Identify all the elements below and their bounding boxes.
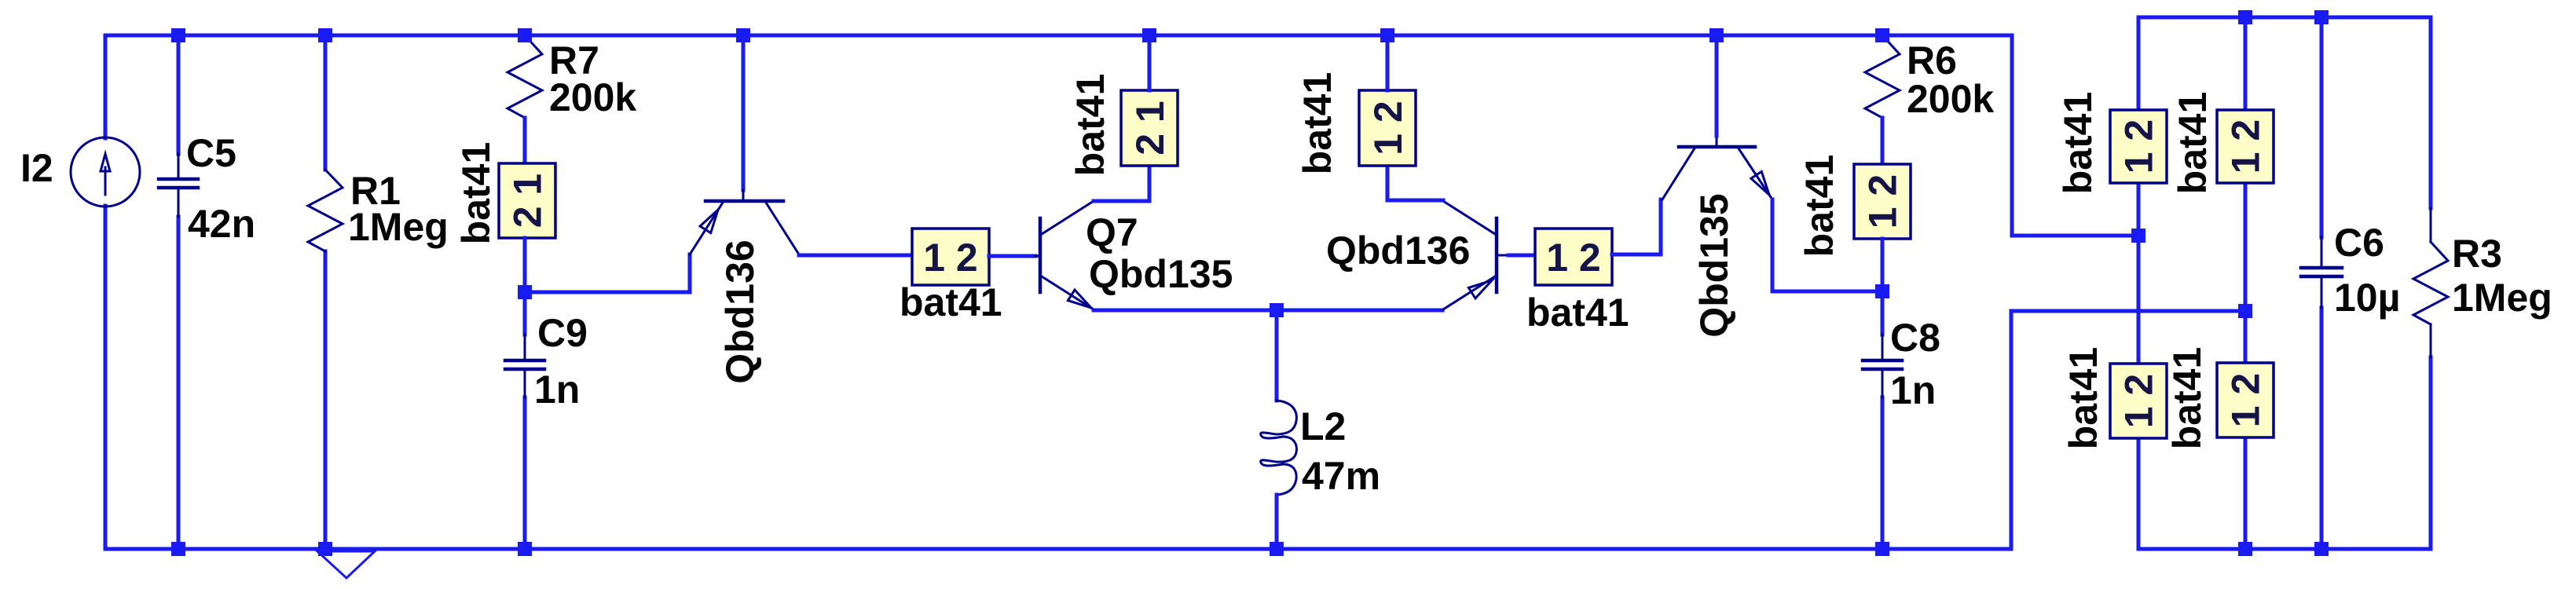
resistor R7 xyxy=(508,35,542,118)
svg-text:1n: 1n xyxy=(1890,368,1936,412)
svg-text:1 2: 1 2 xyxy=(2224,119,2268,174)
diode box bat41 RB4 xyxy=(2217,363,2274,437)
diode box bat41 RB3 xyxy=(2110,364,2167,438)
svg-text:2 1: 2 1 xyxy=(506,174,550,229)
svg-text:1Meg: 1Meg xyxy=(348,205,449,249)
transistor Q7 Qbd135 body xyxy=(1035,201,1094,309)
wire Q8 emitter to R6 node xyxy=(1772,199,1882,291)
wire Q6 base to diode box B2 xyxy=(1508,254,1535,258)
capacitor C9 xyxy=(505,335,544,397)
wire R6 to diode box V4 xyxy=(1881,118,1885,164)
wire R3 column xyxy=(2429,17,2433,549)
svg-text:C6: C6 xyxy=(2334,221,2384,265)
svg-text:1Meg: 1Meg xyxy=(2452,276,2552,320)
diode box bat41 V3 xyxy=(1359,90,1416,166)
junction top rail R1 xyxy=(318,28,332,42)
svg-text:bat41: bat41 xyxy=(1797,155,1841,258)
svg-text:L2: L2 xyxy=(1300,404,1346,448)
diode box bat41 RB1 xyxy=(2110,110,2167,183)
wire diode box to node xyxy=(523,238,527,292)
svg-text:bat41: bat41 xyxy=(2056,92,2100,195)
wire Q5 collector to diode box B1 xyxy=(799,254,912,258)
wire B1 to Q7 base xyxy=(989,254,1035,258)
svg-text:Qbd135: Qbd135 xyxy=(1692,193,1736,337)
junction top rail V3 xyxy=(1380,28,1394,42)
svg-text:Qbd136: Qbd136 xyxy=(1326,229,1470,273)
node junction R7/C9 xyxy=(518,285,532,299)
wire C9 column xyxy=(523,292,527,549)
wire top rail xyxy=(105,34,2012,38)
svg-text:C9: C9 xyxy=(537,311,588,355)
svg-text:I2: I2 xyxy=(20,146,53,190)
junction right block bottom rail C6 xyxy=(2314,542,2329,556)
inductor L2 xyxy=(1261,401,1297,495)
junction bottom rail L2 xyxy=(1270,542,1284,556)
svg-text:1 2: 1 2 xyxy=(923,236,978,280)
wire R1 column xyxy=(324,35,328,549)
wire Q6 collector to diode box V3 xyxy=(1387,166,1443,200)
wire B2 to Q8 collector xyxy=(1612,199,1661,254)
capacitor C6 xyxy=(2301,237,2342,308)
svg-text:2 1: 2 1 xyxy=(1128,101,1172,155)
junction right block bottom rail col2 xyxy=(2238,542,2252,556)
svg-text:200k: 200k xyxy=(1907,77,1994,121)
junction L2 node xyxy=(1270,303,1284,317)
svg-text:Qbd135: Qbd135 xyxy=(1089,252,1233,296)
svg-text:bat41: bat41 xyxy=(2165,347,2209,450)
svg-text:bat41: bat41 xyxy=(1068,74,1112,177)
transistor Q5 Qbd136 base wire xyxy=(742,35,746,190)
svg-text:bat41: bat41 xyxy=(2061,347,2105,450)
wire V2 to top rail xyxy=(1148,35,1152,90)
wire V3 to top rail xyxy=(1386,35,1390,90)
svg-text:1 2: 1 2 xyxy=(1861,174,1905,229)
wire C5 column xyxy=(177,35,181,549)
resistor R1 xyxy=(308,170,343,251)
diode box bat41 V2 xyxy=(1121,90,1178,166)
transistor Q8 Qbd135 body xyxy=(1662,136,1772,199)
junction bottom rail ground xyxy=(318,542,332,556)
transistor Q6 Qbd136 body xyxy=(1443,201,1508,309)
diode box bat41 V4 xyxy=(1854,164,1911,239)
wire Q7 emitter to L2 node xyxy=(1094,309,1442,313)
svg-text:R3: R3 xyxy=(2452,232,2502,276)
wire right block bottom rail xyxy=(2138,547,2431,551)
svg-text:bat41: bat41 xyxy=(454,142,498,245)
svg-text:R6: R6 xyxy=(1907,38,1957,82)
resistor R3 xyxy=(2413,208,2448,357)
svg-text:1 2: 1 2 xyxy=(1546,236,1601,280)
junction top rail C5 xyxy=(171,28,185,42)
svg-text:1 2: 1 2 xyxy=(1366,101,1410,155)
svg-text:200k: 200k xyxy=(549,75,636,119)
wire left column xyxy=(104,35,108,549)
resistor R6 xyxy=(1865,35,1900,118)
svg-text:bat41: bat41 xyxy=(900,280,1002,324)
wire C8 column xyxy=(1881,291,1885,549)
wire V4 to C8 node xyxy=(1881,239,1885,291)
wire top rail drop right xyxy=(2012,35,2138,236)
junction bottom rail C8 xyxy=(1875,542,1889,556)
svg-text:1 2: 1 2 xyxy=(2117,119,2161,174)
svg-text:bat41: bat41 xyxy=(1526,291,1629,335)
wire right block top rail xyxy=(2138,16,2431,20)
wire bottom rail rise right xyxy=(2011,311,2245,549)
wire right column 1 xyxy=(2137,17,2141,549)
junction right column 2 node xyxy=(2238,304,2252,318)
svg-text:10µ: 10µ xyxy=(2334,276,2400,320)
svg-text:42n: 42n xyxy=(188,202,255,246)
wire L2 bottom xyxy=(1275,495,1279,549)
wire Q7 collector to diode box V2 xyxy=(1094,166,1149,201)
junction right column 1 xyxy=(2131,229,2145,243)
wire right column 2 xyxy=(2244,17,2248,549)
diode box bat41 V1 xyxy=(499,163,555,238)
diode box bat41 B1 xyxy=(912,229,989,285)
junction top rail Q8 base xyxy=(1709,28,1724,42)
capacitor C5 xyxy=(159,154,198,217)
node junction C8 xyxy=(1875,284,1889,298)
wire L2 top xyxy=(1275,310,1279,401)
svg-text:bat41: bat41 xyxy=(1295,72,1339,175)
wire R7 to diode box xyxy=(523,118,527,163)
svg-text:1 2: 1 2 xyxy=(2224,373,2268,428)
svg-text:Q7: Q7 xyxy=(1086,210,1138,254)
current source I2 xyxy=(71,137,140,207)
junction top rail Q5 base xyxy=(736,28,750,42)
wire C6 column xyxy=(2320,17,2324,549)
wire Q8 base to top rail xyxy=(1715,35,1719,136)
svg-text:bat41: bat41 xyxy=(2171,92,2215,195)
svg-text:Qbd136: Qbd136 xyxy=(718,240,762,383)
diode box bat41 B2 xyxy=(1535,229,1612,285)
junction bottom rail C5 xyxy=(171,542,185,556)
svg-text:1 2: 1 2 xyxy=(2117,374,2161,429)
capacitor C8 xyxy=(1863,335,1902,397)
junction top rail R7 xyxy=(518,28,532,42)
junction bottom rail C9 xyxy=(518,542,532,556)
ground xyxy=(317,551,375,578)
svg-text:47m: 47m xyxy=(1302,454,1380,498)
junction top rail V2 xyxy=(1142,28,1156,42)
svg-text:C8: C8 xyxy=(1890,316,1940,360)
svg-text:1n: 1n xyxy=(534,368,580,412)
diode box bat41 RB2 xyxy=(2217,110,2274,183)
junction right block top rail C6 xyxy=(2314,10,2329,24)
wire node to Q5 emitter xyxy=(525,254,690,292)
junction right block top rail col2 xyxy=(2238,10,2252,24)
svg-text:C5: C5 xyxy=(186,131,236,175)
junction top rail R6 xyxy=(1875,28,1889,42)
wire bottom rail xyxy=(105,547,2011,551)
transistor Q5 Qbd136 body xyxy=(690,190,799,254)
